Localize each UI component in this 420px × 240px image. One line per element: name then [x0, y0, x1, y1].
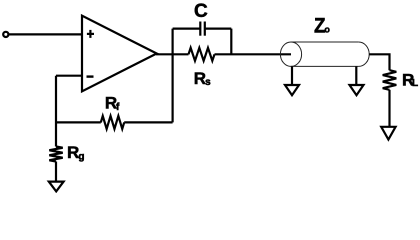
wire capacitor rail right [205, 28, 232, 30]
wire input to + [9, 33, 82, 35]
wire feedback rail right [124, 121, 172, 123]
ground left of line [285, 85, 299, 95]
resistor Rs [189, 48, 215, 61]
wire capacitor rail left [173, 28, 201, 30]
svg-text:f: f [116, 102, 120, 113]
wire capacitor branch down [230, 29, 232, 55]
svg-text:L: L [412, 78, 418, 89]
op-amp U1 [82, 16, 157, 92]
resistor RL [383, 70, 397, 90]
wire line output to RL [369, 54, 389, 70]
input terminal [3, 32, 8, 37]
ground right of line [350, 85, 364, 95]
svg-text:C: C [194, 1, 208, 22]
resistor Rg [49, 147, 62, 162]
wire Rs to line [215, 53, 292, 55]
wire stub left ground [291, 66, 293, 85]
wire stub right ground [355, 66, 357, 85]
transmission line Z0 cylinder [280, 42, 369, 66]
wire feedback rail left [56, 121, 101, 123]
wire RL to ground [388, 90, 390, 127]
ground below RL [381, 127, 395, 140]
wire output node vertical [172, 29, 174, 123]
wire minus input [56, 75, 82, 77]
resistor Rf [101, 116, 124, 129]
capacitor C [200, 22, 205, 36]
wire Rg to ground [55, 162, 57, 182]
wire inverting node vertical [55, 76, 57, 147]
svg-text:o: o [324, 25, 330, 35]
ground below Rg [49, 182, 64, 192]
wire output [156, 53, 189, 55]
svg-text:s: s [205, 77, 211, 88]
svg-text:g: g [78, 151, 84, 162]
